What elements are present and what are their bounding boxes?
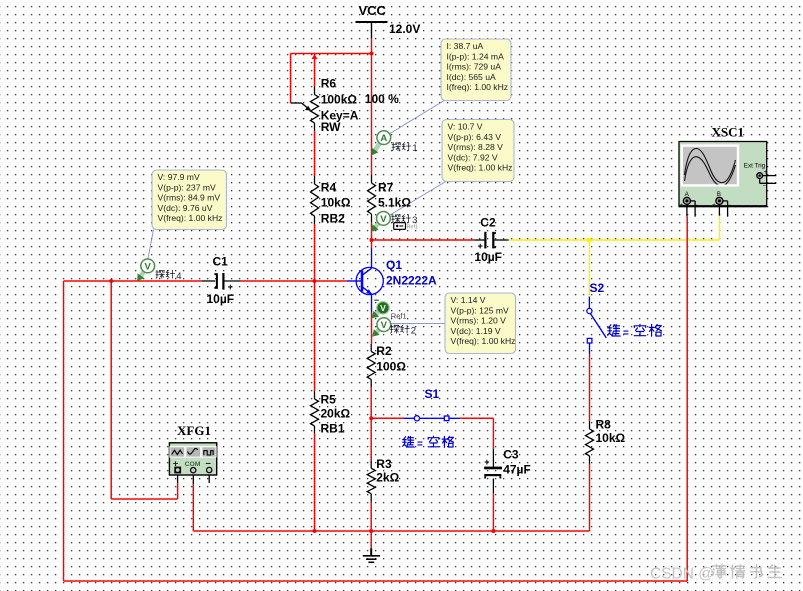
svg-text:S2: S2 — [590, 281, 605, 295]
svg-text:V(rms): 8.28 V: V(rms): 8.28 V — [448, 142, 504, 152]
svg-text:I: 38.7 uA: I: 38.7 uA — [447, 41, 484, 51]
svg-text:XFG1: XFG1 — [177, 423, 211, 438]
svg-text:I(p-p): 1.24 mA: I(p-p): 1.24 mA — [447, 51, 505, 61]
svg-text:−: − — [205, 458, 211, 469]
svg-text:100kΩ: 100kΩ — [321, 93, 358, 107]
svg-text:V(dc): 7.92 V: V(dc): 7.92 V — [448, 152, 498, 162]
svg-text:RW: RW — [321, 120, 341, 134]
svg-text:XSC1: XSC1 — [712, 125, 745, 140]
svg-text:20kΩ: 20kΩ — [321, 407, 351, 421]
svg-text:A: A — [380, 133, 387, 144]
svg-text:COM: COM — [185, 461, 201, 468]
svg-text:+: + — [712, 203, 716, 209]
svg-text:RB2: RB2 — [321, 212, 345, 226]
svg-text:V(p-p): 237 mV: V(p-p): 237 mV — [158, 182, 217, 192]
svg-text:1: 1 — [412, 143, 417, 154]
svg-text:V: V — [380, 214, 387, 225]
svg-text:47µF: 47µF — [503, 463, 531, 477]
svg-text:CSDN @: CSDN @ — [650, 566, 714, 583]
svg-text:Q1: Q1 — [386, 258, 402, 272]
svg-text:V(p-p): 6.43 V: V(p-p): 6.43 V — [448, 132, 502, 142]
svg-text:V(dc): 1.19 V: V(dc): 1.19 V — [451, 326, 501, 336]
svg-text:10kΩ: 10kΩ — [321, 196, 351, 210]
svg-text:V(freq): 1.00 kHz: V(freq): 1.00 kHz — [451, 336, 516, 346]
svg-text:R4: R4 — [321, 181, 337, 195]
svg-text:V(rms): 84.9 mV: V(rms): 84.9 mV — [158, 193, 221, 203]
svg-text:C1: C1 — [213, 255, 229, 269]
svg-text:S1: S1 — [425, 387, 440, 401]
svg-text:R7: R7 — [378, 181, 394, 195]
svg-text:Ref1: Ref1 — [391, 311, 407, 320]
svg-text:V: V — [145, 262, 152, 273]
svg-text:2kΩ: 2kΩ — [376, 471, 399, 485]
svg-text:I(dc): 565 uA: I(dc): 565 uA — [447, 72, 496, 82]
svg-text:=: = — [417, 439, 423, 450]
svg-text:R3: R3 — [376, 457, 392, 471]
svg-text:V: 10.7 V: V: 10.7 V — [448, 122, 483, 132]
svg-text:V(rms): 1.20 V: V(rms): 1.20 V — [451, 316, 507, 326]
svg-text:VCC: VCC — [359, 3, 387, 18]
svg-text:100Ω: 100Ω — [376, 360, 406, 374]
svg-text:V(freq): 1.00 kHz: V(freq): 1.00 kHz — [448, 163, 513, 173]
svg-text:+: + — [764, 170, 768, 176]
svg-text:10kΩ: 10kΩ — [596, 431, 626, 445]
svg-text:4: 4 — [176, 271, 181, 282]
svg-text:R2: R2 — [376, 344, 392, 358]
svg-text:I(rms): 729 uA: I(rms): 729 uA — [447, 62, 502, 72]
svg-text:V(dc): 9.76 uV: V(dc): 9.76 uV — [158, 203, 213, 213]
svg-text:V(p-p): 125 mV: V(p-p): 125 mV — [451, 305, 510, 315]
svg-text:100 %: 100 % — [365, 92, 399, 106]
svg-text:3: 3 — [412, 215, 417, 226]
svg-text:5.1kΩ: 5.1kΩ — [378, 196, 411, 210]
svg-text:2: 2 — [411, 326, 416, 337]
svg-text:Ext Trig: Ext Trig — [744, 163, 766, 170]
svg-text:V: 1.14 V: V: 1.14 V — [451, 295, 486, 305]
svg-text:R5: R5 — [321, 393, 337, 407]
svg-text:V: V — [381, 320, 388, 331]
svg-text:+: + — [484, 457, 489, 467]
svg-text:I(freq): 1.00 kHz: I(freq): 1.00 kHz — [447, 82, 509, 92]
svg-text:−: − — [763, 184, 767, 190]
svg-text:2N2222A: 2N2222A — [386, 274, 437, 288]
svg-text:C2: C2 — [480, 216, 496, 230]
svg-text:10µF: 10µF — [474, 250, 502, 264]
svg-text:+: + — [228, 282, 233, 292]
svg-text:R8: R8 — [596, 418, 612, 432]
svg-text:V: V — [380, 303, 386, 313]
svg-text:12.0V: 12.0V — [389, 22, 420, 36]
svg-text:V(freq): 1.00 kHz: V(freq): 1.00 kHz — [158, 213, 223, 223]
svg-text:V: 97.9 mV: V: 97.9 mV — [158, 172, 200, 182]
svg-text:R6: R6 — [321, 77, 337, 91]
svg-text:+: + — [680, 203, 684, 209]
svg-text:RB1: RB1 — [321, 422, 345, 436]
svg-text:C3: C3 — [503, 448, 519, 462]
svg-text:10µF: 10µF — [207, 292, 235, 306]
svg-text:+: + — [173, 459, 179, 470]
svg-text:=: = — [623, 328, 629, 339]
